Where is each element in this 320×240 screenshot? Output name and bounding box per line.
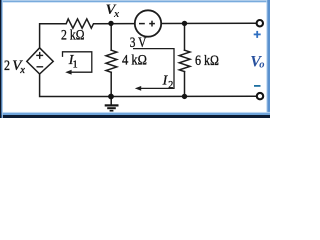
terminal - output bottom	[257, 93, 263, 99]
svg-text:2: 2	[4, 58, 10, 74]
node Vx junction dot	[108, 21, 113, 26]
minus sign inside diamond	[37, 66, 44, 68]
svg-text:6 kΩ: 6 kΩ	[195, 53, 219, 69]
wire 6k to bottom node	[184, 72, 186, 97]
svg-text:2: 2	[168, 80, 173, 91]
svg-text:2 kΩ: 2 kΩ	[61, 27, 85, 43]
plus sign inside diamond	[36, 54, 43, 56]
svg-text:x: x	[113, 9, 119, 20]
minus sign inside circle	[139, 23, 145, 25]
label + output	[254, 31, 261, 38]
svg-text:4 kΩ: 4 kΩ	[122, 52, 147, 68]
dependent source E1 (diamond)	[27, 48, 53, 74]
svg-text:o: o	[259, 59, 264, 70]
wire node Vx down to 4k	[110, 23, 112, 50]
resistor R2 4 kOhm	[106, 50, 117, 72]
wire top-left from dependent source up and right to resistor	[40, 24, 65, 48]
resistor R3 6 kOhm	[179, 50, 190, 71]
wire from 3V source to output terminal	[161, 22, 256, 24]
wire right node down to 6k	[184, 23, 186, 50]
wire from resistor to node Vx and on to 3V source	[95, 23, 135, 25]
terminal + output top	[257, 20, 263, 26]
ground	[105, 97, 119, 111]
mesh current I1 loop arrow	[63, 52, 92, 72]
plus sign inside circle	[149, 23, 155, 25]
wire from dependent source bottom down to bottom rail	[40, 74, 112, 97]
svg-text:3 V: 3 V	[130, 35, 147, 51]
wire 4k to bottom node	[110, 72, 112, 96]
node junction dot bottom right	[182, 94, 187, 99]
bottom wire rail	[111, 95, 256, 97]
svg-text:x: x	[19, 65, 25, 76]
resistor R1 2 kOhm	[64, 19, 95, 28]
frame borders (decorative)	[0, 0, 270, 2]
node junction dot bottom left (ground node)	[108, 94, 114, 100]
mesh current I2 loop arrow	[133, 49, 174, 89]
voltage source V1 3V (circle)	[135, 10, 161, 36]
node junction dot top right	[182, 21, 187, 26]
label - output	[254, 85, 261, 87]
svg-text:1: 1	[73, 60, 78, 71]
